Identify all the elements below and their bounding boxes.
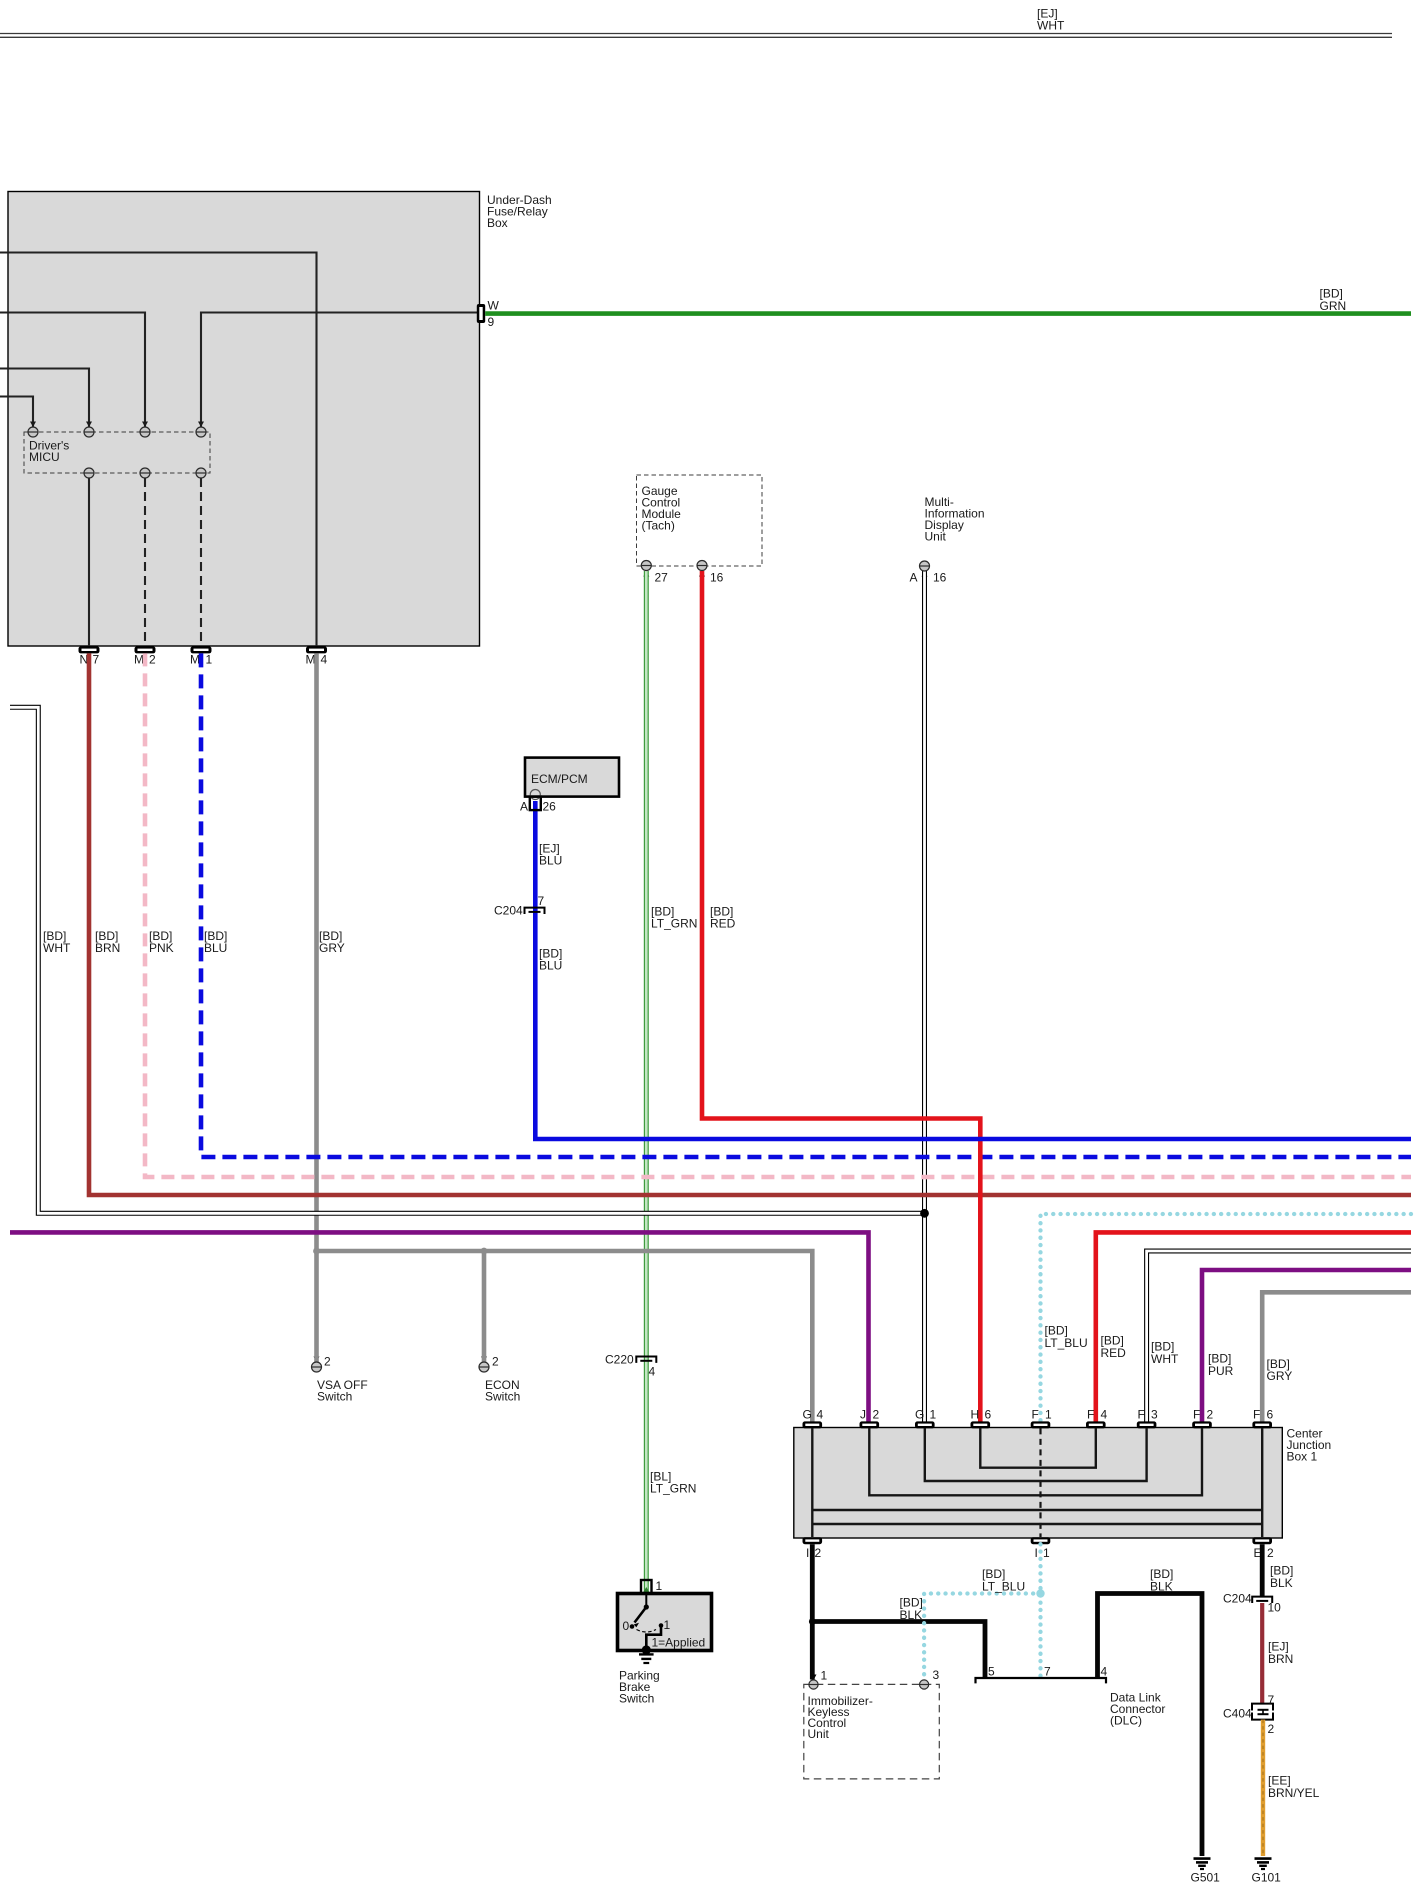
wire MICU pin to M1 dashed [200,478,202,646]
wire [BD] PNK M2 dashed [145,653,1411,1177]
svg-text:Switch: Switch [485,1390,520,1404]
Parking Brake Switch [643,1587,649,1593]
connector C204 on E2 wire [1252,1597,1272,1603]
svg-text:6: 6 [1267,1408,1274,1422]
svg-text:1: 1 [930,1408,937,1422]
svg-text:WHT: WHT [1151,1352,1179,1366]
svg-text:1: 1 [206,653,213,667]
wire [BD] BLU M1 dashed [201,653,1411,1157]
svg-text:7: 7 [93,653,100,667]
wire gray M4 to VSA/ECON and G4 [317,653,813,1422]
label [BD] BLU [539,947,562,973]
svg-text:G: G [915,1408,924,1422]
connector H 6 [971,1408,992,1429]
wire MICU pin to N7 solid [88,478,90,646]
wire internal feed from W9 to MICU pin col4 [201,313,479,428]
svg-text:F: F [1138,1408,1145,1422]
svg-text:BLU: BLU [204,941,227,955]
label [BL] LT_GRN [650,1470,696,1496]
svg-text:BRN: BRN [1268,1652,1293,1666]
svg-text:4: 4 [649,1365,656,1379]
wire [BD] GRN from W9 to right edge [485,311,1411,316]
svg-text:1: 1 [664,1618,671,1632]
connector F 3 [1137,1408,1158,1429]
wire gray branch to ECON switch [482,1251,487,1362]
svg-text:1: 1 [656,1579,663,1593]
svg-text:C204: C204 [494,904,523,918]
node immobilizer pin 3 [920,1668,940,1689]
svg-text:3: 3 [1151,1408,1158,1422]
connector W 9 on fuse box right edge [477,299,500,330]
svg-text:1: 1 [1043,1546,1050,1560]
svg-text:16: 16 [710,571,724,585]
wire [EJ] WHT top horizontal double line [0,34,1392,38]
wire [EJ] BRN C204 to C404 [1260,1603,1264,1703]
ground at parking brake switch [642,1645,651,1654]
wire internal feed to MICU pin col3 [0,313,145,428]
svg-text:2: 2 [149,653,156,667]
svg-text:2: 2 [1267,1546,1274,1560]
svg-text:Switch: Switch [317,1390,352,1404]
svg-text:RED: RED [710,917,736,931]
wire internal feed to M4 [0,253,317,647]
wire [BD] BLK from I2 to immobilizer pin1 and DLC pin5 [810,1544,815,1679]
label Multi-Information Display Unit [925,495,985,544]
svg-text:4: 4 [817,1408,824,1422]
connector M 4 [306,646,328,666]
wire arrowheads at pins [30,422,928,1681]
svg-text:27: 27 [655,571,669,585]
svg-text:Box 1: Box 1 [1287,1450,1318,1464]
svg-text:GRN: GRN [1320,299,1347,313]
svg-text:1: 1 [1045,1408,1052,1422]
svg-text:2: 2 [492,1355,499,1369]
wire [EE] BRN/YEL C404 to G101 [1261,1720,1265,1856]
wire [BD] PUR right to F2 [1202,1270,1411,1422]
wire [BD] LT_BLU dotted from right edge to F1 [1041,1214,1412,1422]
svg-text:A: A [520,800,528,814]
connector F 4 [1086,1408,1108,1429]
wire internal feed to MICU pin col1 [0,397,33,428]
connector C404 [1252,1704,1273,1720]
connector A 26 at ECM [520,797,556,814]
svg-text:BLK: BLK [1270,1576,1293,1590]
svg-text:A: A [910,571,918,585]
wire WHT from Multi-Information Display to G1 [922,571,927,1422]
wire MICU pin to M2 dashed [144,478,146,646]
svg-text:G: G [803,1408,812,1422]
svg-text:7: 7 [1268,1693,1275,1707]
connector M 1 [190,646,213,666]
node MICU bottom pins [84,468,206,478]
svg-text:2: 2 [1207,1408,1214,1422]
svg-text:LT_BLU: LT_BLU [982,1580,1025,1594]
svg-text:F: F [1087,1408,1094,1422]
Under-Dash Fuse/Relay Box [8,192,480,647]
svg-text:4: 4 [321,653,328,667]
wire [BD] WHT right to F3 (outline style) [1147,1251,1411,1422]
Immobilizer-Keyless Control Unit [804,1684,940,1779]
svg-text:(Tach): (Tach) [642,519,675,533]
svg-text:9: 9 [488,315,495,329]
svg-text:H: H [971,1408,980,1422]
labels above junction box wires [1045,1324,1293,1384]
svg-text:WHT: WHT [43,941,71,955]
svg-text:I: I [1035,1546,1038,1560]
svg-text:0: 0 [623,1619,630,1633]
svg-text:7: 7 [538,894,545,908]
wire [BD] LT_BLU from I1 to immobilizer pin3 and DLC pin7 [1038,1544,1042,1677]
connector E 2 (bottom) [1252,1537,1274,1560]
label [BD] RED [710,905,736,931]
svg-text:C220: C220 [605,1353,634,1367]
svg-text:2: 2 [1268,1722,1275,1736]
svg-text:1: 1 [821,1669,828,1683]
label Under-Dash Fuse/Relay Box [487,193,552,230]
svg-text:(DLC): (DLC) [1110,1714,1142,1728]
svg-text:I: I [806,1546,809,1560]
connector M 2 [134,646,156,666]
node MID pin A16 [910,561,947,585]
svg-text:M: M [306,653,316,667]
Driver's MICU dashed box [24,432,210,473]
svg-text:2: 2 [815,1546,822,1560]
switch internals [635,1594,662,1649]
wire [BD] RED gauge-16 to H6 [702,571,980,1422]
Gauge Control Module (Tach) dashed box [637,475,763,566]
svg-text:G501: G501 [1191,1871,1221,1885]
connector F 6 [1252,1408,1273,1429]
node ECON switch pin 2 [479,1355,520,1404]
connector G 4 [803,1408,824,1429]
wire [BD] WHT from left edge to MID junction (outline style) [10,707,925,1213]
connector C220 on LT_GRN wire [636,1357,656,1363]
wire [BD] BRN N7 down and right [89,653,1411,1195]
svg-text:7: 7 [1044,1665,1051,1679]
wire [EJ]/[BD] BLU from ECM to right edge [535,801,1411,1139]
connector F 2 [1192,1408,1213,1429]
node gauge pin 16 [697,561,724,585]
svg-text:BLU: BLU [539,854,562,868]
svg-text:F: F [1032,1408,1039,1422]
svg-text:Box: Box [487,216,508,230]
wire [BL] LT_GRN gauge-27 down to parking brake (drawn first, under lanes) [644,571,649,1592]
label [EJ] WHT [1037,7,1065,33]
svg-text:C404: C404 [1223,1707,1252,1721]
svg-text:C204: C204 [1223,1592,1252,1606]
ECM/PCM box [525,758,619,800]
svg-text:M: M [190,653,200,667]
svg-text:1=Applied: 1=Applied [652,1636,706,1650]
svg-text:4: 4 [1101,1665,1108,1679]
ground G101 [1255,1859,1272,1869]
svg-text:5: 5 [988,1665,995,1679]
connector I 1 (bottom) [1031,1537,1051,1560]
svg-text:2: 2 [324,1355,331,1369]
svg-text:RED: RED [1101,1346,1127,1360]
label [EJ] BLU [539,842,562,868]
svg-text:LT_GRN: LT_GRN [650,1482,696,1496]
svg-text:BLK: BLK [900,1608,923,1622]
wire [BD] GRY right to F6 [1262,1292,1411,1422]
wire [BD] BLK from E2 to C204 [1260,1544,1265,1596]
svg-text:GRY: GRY [1267,1369,1293,1383]
Data Link Connector (DLC) [976,1678,1107,1683]
svg-text:GRY: GRY [319,941,345,955]
connector F 1 [1031,1408,1052,1429]
label [BD] LT_GRN [651,905,697,931]
wire [BD] BLK DLC pin4 to G501 [1098,1594,1203,1857]
svg-text:Unit: Unit [808,1727,830,1741]
svg-text:10: 10 [1268,1601,1282,1615]
svg-text:16: 16 [933,571,947,585]
svg-text:Switch: Switch [619,1692,654,1706]
svg-text:WHT: WHT [1037,19,1065,33]
node gauge pin 27 [641,561,668,585]
node gray junctions [313,1248,320,1255]
svg-text:BLK: BLK [1150,1580,1173,1594]
svg-text:3: 3 [933,1668,940,1682]
svg-text:BRN/YEL: BRN/YEL [1268,1786,1320,1800]
node immobilizer pin 1 [809,1669,828,1690]
svg-text:J: J [860,1408,866,1422]
wire dashed F1 to I1 inside box [1039,1428,1041,1537]
node MICU top pins [28,427,206,437]
svg-text:Unit: Unit [925,530,947,544]
svg-text:LT_GRN: LT_GRN [651,917,697,931]
svg-text:F: F [1193,1408,1200,1422]
labels on left wires [43,929,345,955]
connector I 2 (bottom) [803,1537,823,1560]
svg-text:4: 4 [1101,1408,1108,1422]
svg-text:W: W [488,299,500,313]
connector J 2 [860,1408,880,1429]
Center Junction Box 1 [794,1428,1283,1539]
svg-text:MICU: MICU [29,450,60,464]
svg-text:G101: G101 [1252,1871,1282,1885]
node VSA OFF switch pin 2 [312,1355,368,1404]
svg-text:26: 26 [543,800,557,814]
svg-text:M: M [134,653,144,667]
svg-text:6: 6 [985,1408,992,1422]
wire [BD] PUR left to J2 [10,1232,869,1422]
svg-text:PUR: PUR [1208,1364,1234,1378]
svg-text:ECM/PCM: ECM/PCM [531,772,588,786]
svg-text:PNK: PNK [149,941,174,955]
node WHT junction [920,1209,929,1218]
svg-text:2: 2 [873,1408,880,1422]
connector G 1 [915,1408,937,1429]
wire internal feed to MICU pin col2 [0,369,89,428]
connector N 7 [79,646,100,666]
wire gray branch to VSA OFF switch [314,1251,319,1362]
connector C204 on blue wire [525,908,545,914]
ground G501 [1194,1859,1211,1869]
svg-text:BRN: BRN [95,941,120,955]
svg-text:LT_BLU: LT_BLU [1045,1336,1088,1350]
svg-text:F: F [1253,1408,1260,1422]
junction box internal buses [812,1428,1262,1537]
wire [BD] RED right to F4 [1096,1232,1411,1422]
svg-text:BLU: BLU [539,959,562,973]
